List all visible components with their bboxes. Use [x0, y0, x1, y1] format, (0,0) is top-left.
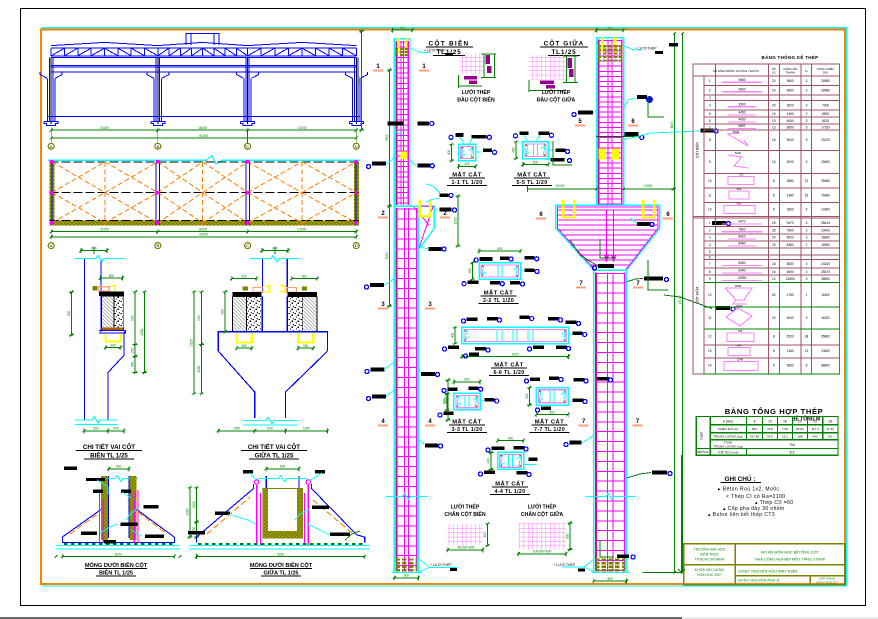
svg-text:7800: 7800	[385, 134, 389, 141]
detail vai cot bien: corbel cap	[99, 292, 124, 297]
svg-text:400: 400	[512, 147, 516, 153]
svg-text:16840: 16840	[821, 236, 830, 240]
svg-text:800: 800	[607, 577, 613, 581]
svg-text:20: 20	[772, 236, 776, 240]
section 4-4 TL 1/20	[498, 452, 524, 469]
elevation: haunch line	[40, 72, 47, 79]
svg-text:88800: 88800	[821, 364, 830, 368]
cot giua funnel	[556, 205, 597, 228]
svg-text:8120: 8120	[822, 119, 829, 123]
svg-text:10800: 10800	[357, 76, 361, 85]
svg-text:LƯỚI THÉP: LƯỚI THÉP	[528, 503, 557, 511]
svg-text:1500: 1500	[453, 217, 457, 224]
svg-text:3: 3	[806, 138, 808, 142]
svg-text:MSSV:X041357: MSSV:X041357	[816, 580, 838, 584]
svg-text:84.82: 84.82	[796, 427, 804, 431]
svg-text:18: 18	[772, 262, 776, 266]
svg-text:2520: 2520	[787, 335, 794, 339]
svg-text:▸ Bêton Roù 1x2, Mo0c: ▸ Bêton Roù 1x2, Mo0c	[718, 487, 779, 493]
cot giua base line	[592, 572, 630, 574]
svg-text:9470: 9470	[787, 221, 794, 225]
mong cot bien: shaft	[108, 476, 110, 538]
svg-text:14300: 14300	[821, 208, 830, 212]
svg-text:23.6: 23.6	[767, 435, 773, 439]
svg-text:900: 900	[67, 311, 71, 317]
svg-text:3: 3	[806, 119, 808, 123]
svg-text:3: 3	[806, 89, 808, 93]
section 1-1 TL 1/20	[459, 144, 476, 161]
svg-text:CHI TIẾT VAI CỘT: CHI TIẾT VAI CỘT	[83, 443, 135, 451]
svg-text:600: 600	[566, 533, 570, 539]
cot giua funnel arrows	[606, 210, 608, 262]
svg-text:1480: 1480	[787, 194, 794, 198]
svg-text:400: 400	[464, 162, 470, 166]
svg-text:95800: 95800	[821, 335, 830, 339]
mong cot bien: rebar verticals	[99, 490, 101, 543]
svg-text:TP.HCM CHI MINH: TP.HCM CHI MINH	[695, 558, 725, 562]
svg-text:CỘT GIỮA: CỘT GIỮA	[544, 39, 585, 48]
svg-text:9660: 9660	[787, 79, 794, 83]
svg-text:800: 800	[280, 465, 286, 469]
svg-text:804: 804	[752, 427, 757, 431]
callouts left column corbel	[426, 199, 439, 203]
luoi thep dau cot giua: mesh	[529, 55, 566, 79]
svg-text:20: 20	[772, 104, 776, 108]
svg-text:400: 400	[447, 150, 451, 156]
svg-text:4060: 4060	[738, 118, 745, 122]
svg-text:800: 800	[497, 247, 503, 251]
svg-text:3000: 3000	[385, 252, 389, 259]
svg-text:9660: 9660	[738, 87, 745, 91]
mong cot giua: rebar verticals	[256, 485, 258, 545]
svg-text:52: 52	[805, 194, 809, 198]
svg-text:4060: 4060	[787, 119, 794, 123]
detail vai cot giua: right corbel block	[288, 292, 317, 297]
detail vai cot bien: corbel hatch block	[102, 296, 115, 330]
svg-text:29: 29	[772, 243, 776, 247]
svg-text:1000: 1000	[197, 365, 201, 372]
svg-text:3: 3	[806, 316, 808, 320]
svg-text:700: 700	[738, 329, 743, 333]
svg-text:9: 9	[709, 277, 711, 281]
svg-text:60000: 60000	[199, 134, 208, 138]
svg-text:8: 8	[773, 208, 775, 212]
elevation: skylight monitor box	[186, 34, 219, 46]
svg-text:71.30: 71.30	[826, 427, 834, 431]
detail vai cot giua: anchor glyphs right corbel	[280, 286, 285, 292]
svg-text:THANH: THANH	[785, 71, 795, 75]
svg-text:9660: 9660	[787, 89, 794, 93]
svg-text:MÓNG DƯỚI BIÊN CỘT: MÓNG DƯỚI BIÊN CỘT	[85, 561, 148, 569]
svg-text:11: 11	[708, 316, 712, 320]
svg-text:10: 10	[768, 420, 772, 424]
svg-text:400: 400	[443, 399, 447, 405]
svg-text:28410: 28410	[821, 221, 830, 225]
svg-text:600: 600	[109, 274, 115, 278]
detail vai cot giua: funnel taper	[218, 351, 254, 418]
svg-text:2780: 2780	[787, 293, 794, 297]
svg-text:C: C	[246, 144, 249, 149]
svg-text:7: 7	[709, 125, 711, 129]
mong cot giua: pocket hatch U	[263, 489, 268, 539]
elevation: grid bubbles A-D	[50, 130, 52, 143]
detail vai cot giua: top dims	[232, 278, 257, 280]
svg-text:10: 10	[708, 293, 712, 297]
elevation: right height dim	[361, 31, 363, 130]
detail vai cot giua: bottom break	[243, 418, 297, 424]
svg-text:20: 20	[772, 79, 776, 83]
detail vai cot giua: left corbel block	[233, 292, 262, 297]
svg-text:600: 600	[404, 574, 410, 578]
svg-text:2860: 2860	[787, 208, 794, 212]
svg-text:4450: 4450	[787, 112, 794, 116]
luoi thep dau cot bien: end blocks	[485, 55, 490, 64]
cot bien bottom dim	[394, 577, 418, 579]
svg-text:A: A	[50, 243, 53, 248]
svg-text:8420: 8420	[787, 236, 794, 240]
svg-text:1: 1	[709, 221, 711, 225]
mong cot giua: bottom dim	[197, 556, 365, 558]
svg-text:950: 950	[737, 202, 742, 206]
svg-text:TL1/25: TL1/25	[436, 49, 461, 56]
detail vai cot giua: left dims	[193, 292, 195, 394]
elevation: crane girder lines	[51, 64, 356, 66]
svg-text:360: 360	[110, 343, 116, 347]
svg-text:540: 540	[737, 344, 742, 348]
cot bien break mark	[386, 494, 427, 500]
svg-text:2000: 2000	[140, 328, 144, 335]
svg-text:B: B	[156, 243, 159, 248]
svg-text:24240: 24240	[821, 262, 830, 266]
luoi thep chan cot giua mesh	[518, 523, 566, 550]
svg-text:39480: 39480	[821, 179, 830, 183]
mong cot bien: anchor hatch strips	[101, 476, 108, 540]
svg-text:600: 600	[464, 378, 470, 382]
svg-text:+ LƯỚI THÉP: + LƯỚI THÉP	[635, 46, 657, 51]
svg-text:3: 3	[806, 277, 808, 281]
svg-text:CHI TIẾT VAI CỘT: CHI TIẾT VAI CỘT	[248, 443, 300, 451]
svg-text:12: 12	[708, 335, 712, 339]
svg-text:7: 7	[709, 262, 711, 266]
svg-text:17160: 17160	[821, 125, 830, 129]
svg-text:60000: 60000	[199, 233, 208, 237]
svg-text:50x50=400: 50x50=400	[458, 546, 475, 550]
svg-text:3: 3	[806, 270, 808, 274]
svg-text:9470: 9470	[738, 220, 745, 224]
svg-text:8: 8	[709, 270, 711, 274]
cot bien top olive band	[395, 48, 410, 50]
plan: column lines B C	[155, 162, 157, 226]
cot bien base leader fan	[419, 559, 429, 572]
svg-text:8490: 8490	[738, 269, 745, 273]
cot giua bottom dim	[594, 580, 627, 582]
svg-text:117.4: 117.4	[811, 427, 819, 431]
svg-text:600: 600	[508, 437, 514, 441]
svg-text:250: 250	[131, 348, 135, 354]
mong cot giua: base layers	[190, 544, 370, 546]
svg-text:ĐỒ ÁN MÔN HỌC BÊTÔNG CỐT: ĐỒ ÁN MÔN HỌC BÊTÔNG CỐT	[761, 550, 819, 555]
svg-text:400: 400	[483, 532, 487, 538]
section 3-3 callouts	[448, 387, 458, 391]
svg-text:KIẾN TRÚC: KIẾN TRÚC	[700, 552, 719, 557]
svg-text:8: 8	[773, 349, 775, 353]
svg-text:11000: 11000	[644, 184, 653, 188]
svg-text:6: 6	[709, 119, 711, 123]
green dim near title block	[681, 455, 683, 573]
mong cot giua: leaders	[250, 473, 256, 480]
cot giua upper shaft rebar	[596, 38, 623, 206]
mong cot bien: base layers	[56, 544, 180, 546]
svg-text:5: 5	[709, 250, 711, 254]
svg-text:2: 2	[709, 229, 711, 233]
svg-text:3: 3	[806, 160, 808, 164]
svg-text:16960: 16960	[821, 243, 830, 247]
section 5-5 callouts	[520, 132, 529, 136]
svg-text:794: 794	[789, 443, 795, 447]
cot giua span dims 10000 11000	[528, 188, 597, 190]
svg-text:24840: 24840	[821, 349, 830, 353]
svg-text:15600: 15600	[821, 160, 830, 164]
svg-text:GVHD: NGUYỄN HỮU ANH TUẤN: GVHD: NGUYỄN HỮU ANH TUẤN	[738, 569, 798, 574]
section 6-6 TL 1/20	[462, 327, 569, 343]
svg-text:13: 13	[805, 349, 809, 353]
luoi thep dau cot giua: end blocks	[567, 58, 571, 68]
svg-text:400: 400	[525, 393, 529, 399]
luoi thep chan cot bien mesh	[448, 524, 483, 546]
cot bien top hooks	[397, 38, 400, 52]
cot giua top-right label	[624, 46, 641, 50]
svg-text:12850: 12850	[738, 276, 747, 280]
svg-text:TL: TL	[805, 69, 809, 73]
svg-text:8480: 8480	[787, 243, 794, 247]
svg-text:8490: 8490	[787, 270, 794, 274]
svg-text:NHÀ CÔNG NGHIỆP MỘT TẦNG 3 NHỊ: NHÀ CÔNG NGHIỆP MỘT TẦNG 3 NHỊP	[755, 557, 826, 562]
svg-text:6600: 6600	[738, 124, 745, 128]
svg-text:3: 3	[709, 236, 711, 240]
svg-text:28: 28	[772, 221, 776, 225]
svg-text:A: A	[50, 144, 53, 149]
svg-text:SỐ HÌNH DÁNG VA KÍCH THƯỚC: SỐ HÌNH DÁNG VA KÍCH THƯỚC	[713, 68, 760, 73]
svg-text:6: 6	[709, 256, 711, 260]
svg-text:ø (mm): ø (mm)	[723, 420, 733, 424]
plan: boundary dashes	[50, 161, 359, 163]
svg-text:TRỌNG LƯỢNG (kg): TRỌNG LƯỢNG (kg)	[714, 444, 743, 448]
cot giua lower shaft rebar	[594, 270, 627, 572]
svg-text:8480: 8480	[738, 241, 745, 245]
svg-text:3: 3	[806, 262, 808, 266]
svg-text:11: 11	[708, 194, 712, 198]
detail vai cot giua: bottom dim	[218, 430, 254, 432]
svg-text:2600: 2600	[735, 284, 742, 288]
section 2-2 TL 1/20	[479, 263, 521, 279]
svg-text:CHÂN CỘT GIỮA: CHÂN CỘT GIỮA	[521, 510, 564, 518]
svg-text:28980: 28980	[821, 79, 830, 83]
svg-text:400: 400	[113, 427, 119, 431]
svg-text:400: 400	[131, 362, 135, 368]
svg-text:1180: 1180	[787, 349, 794, 353]
svg-text:19: 19	[772, 112, 776, 116]
svg-text:76.8: 76.8	[767, 427, 773, 431]
svg-text:1400: 1400	[186, 508, 190, 515]
svg-text:1: 1	[709, 79, 711, 83]
svg-text:900: 900	[221, 309, 225, 315]
svg-text:5: 5	[709, 112, 711, 116]
mong cot bien: diag rebar dashes	[70, 512, 100, 534]
svg-text:20: 20	[798, 420, 802, 424]
svg-text:8: 8	[754, 420, 756, 424]
plan: edge hatched strips	[50, 162, 55, 226]
cot giua tie yellow blocks	[599, 149, 607, 160]
svg-text:BẢNG THỐNG KÊ THÉP: BẢNG THỐNG KÊ THÉP	[762, 53, 819, 60]
cot giua top dim	[596, 29, 623, 31]
svg-text:600: 600	[242, 274, 248, 278]
svg-text:360: 360	[242, 344, 248, 348]
svg-text:60: 60	[772, 293, 776, 297]
svg-text:3500: 3500	[787, 104, 794, 108]
cot giua corbel yellow Us	[563, 200, 574, 218]
section 7-7 TL 1/20	[536, 388, 568, 405]
svg-text:8: 8	[773, 194, 775, 198]
svg-text:ĐẦU CỘT BIÊN: ĐẦU CỘT BIÊN	[457, 96, 495, 104]
svg-text:15.1: 15.1	[782, 435, 788, 439]
mong cot giua: footing outline	[197, 490, 253, 537]
svg-text:GIỮA TL 1/25: GIỮA TL 1/25	[255, 453, 294, 460]
svg-text:▴ Bulon liên kết thép CT3: ▴ Bulon liên kết thép CT3	[708, 512, 775, 518]
svg-text:CỘT BIÊN: CỘT BIÊN	[695, 141, 700, 158]
svg-text:21000: 21000	[298, 228, 307, 232]
svg-text:SVTH: NGUYỄN PHÚ Đ: SVTH: NGUYỄN PHÚ Đ	[738, 578, 780, 583]
svg-text:4450: 4450	[738, 111, 745, 115]
plan: orange roof bracing	[52, 162, 356, 226]
callouts left column upper	[388, 122, 404, 126]
svg-text:8080: 8080	[738, 261, 745, 265]
detail vai cot bien: column taper	[108, 332, 124, 420]
svg-text:MẶT CẮT: MẶT CẮT	[494, 361, 524, 369]
svg-text:8.3: 8.3	[790, 450, 795, 454]
svg-text:8: 8	[709, 138, 711, 142]
svg-text:600: 600	[116, 465, 122, 469]
svg-text:16320: 16320	[821, 316, 830, 320]
svg-text:13: 13	[708, 349, 712, 353]
svg-text:BIÊN TL 1/25: BIÊN TL 1/25	[99, 569, 133, 577]
svg-text:100x60=600: 100x60=600	[533, 550, 552, 554]
svg-text:76960: 76960	[821, 194, 830, 198]
svg-text:HOA HỌC 2007: HOA HỌC 2007	[697, 573, 722, 577]
section 2-2 callouts	[479, 257, 492, 261]
detail vai cot bien: bottom break	[75, 417, 117, 423]
svg-text:4800: 4800	[670, 121, 674, 129]
svg-text:1000: 1000	[303, 427, 310, 431]
svg-text:21: 21	[805, 179, 809, 183]
svg-text:9: 9	[709, 160, 711, 164]
svg-text:500: 500	[737, 187, 742, 191]
left column side dims	[389, 70, 391, 206]
svg-text:5040: 5040	[733, 130, 740, 134]
svg-text:35: 35	[772, 229, 776, 233]
svg-text:MẶT CẮT: MẶT CẮT	[535, 418, 565, 426]
svg-text:20: 20	[772, 316, 776, 320]
svg-text:3: 3	[806, 112, 808, 116]
svg-text:28: 28	[828, 420, 832, 424]
detail vai cot giua: column shaft	[262, 259, 264, 292]
cot bien bottom olive bands	[396, 558, 418, 560]
section 5-5 TL 1/20	[523, 142, 548, 159]
svg-text:600: 600	[302, 274, 308, 278]
svg-text:CHIỀU DÀI (m): CHIỀU DÀI (m)	[718, 426, 739, 431]
mong cot bien: callout labels	[64, 467, 77, 471]
mong cot giua: diag rebar dashes	[207, 497, 250, 534]
detail vai cot bien: anchor glyphs	[93, 286, 98, 290]
svg-text:MẶT CẮT: MẶT CẮT	[484, 289, 514, 297]
cot giua base leader fan	[584, 559, 594, 572]
detail vai cot giua: yellow U seats	[237, 333, 252, 343]
svg-text:THÉP: THÉP	[699, 432, 704, 441]
svg-text:12850: 12850	[786, 277, 795, 281]
svg-text:1000: 1000	[233, 427, 240, 431]
svg-text:1: 1	[806, 293, 808, 297]
cot bien tie yellow block	[401, 152, 408, 160]
svg-text:7800: 7800	[787, 229, 794, 233]
svg-text:23400: 23400	[821, 229, 830, 233]
svg-text:8: 8	[773, 335, 775, 339]
svg-text:8: 8	[773, 179, 775, 183]
long right dims	[674, 34, 676, 573]
section 1-1 callouts	[455, 133, 463, 137]
svg-text:TRỌNG LƯỢNG (kg): TRỌNG LƯỢNG (kg)	[714, 435, 743, 439]
cot giua bottom olive bands	[595, 558, 626, 560]
svg-text:25470: 25470	[821, 270, 830, 274]
svg-text:3000: 3000	[115, 552, 122, 556]
callouts left column mid	[370, 283, 384, 287]
detail vai cot bien: left small dim	[71, 292, 73, 335]
svg-text:5200: 5200	[277, 552, 284, 556]
svg-text:3500: 3500	[738, 102, 745, 106]
cyan accent frame	[41, 27, 847, 29]
svg-text:CHÂN CỘT BIÊN: CHÂN CỘT BIÊN	[444, 510, 485, 518]
detail vai cot giua: top break	[250, 256, 300, 262]
svg-text:3: 3	[806, 229, 808, 233]
svg-text:BIÊN TL 1/25: BIÊN TL 1/25	[90, 452, 128, 460]
detail vai cot bien: top break	[75, 256, 125, 262]
mong cot bien: footing outline	[62, 509, 102, 537]
svg-text:900: 900	[197, 315, 201, 321]
svg-text:8420: 8420	[738, 234, 745, 238]
svg-text:ĐẦU CỘT GIỮA: ĐẦU CỘT GIỮA	[537, 96, 576, 104]
svg-text:LƯỚI THÉP: LƯỚI THÉP	[462, 88, 491, 96]
detail vai cot bien: bottom dim	[84, 430, 108, 432]
svg-text:TRƯỜNG ĐẠI HỌC: TRƯỜNG ĐẠI HỌC	[694, 547, 726, 552]
svg-text:6: 6	[806, 125, 808, 129]
bang tong hop thep: grid	[696, 417, 838, 456]
detail vai cot giua: anchor glyphs left corbel	[243, 286, 248, 290]
svg-text:188: 188	[797, 435, 802, 439]
svg-text:600: 600	[93, 427, 99, 431]
svg-text:12: 12	[772, 277, 776, 281]
svg-text:16: 16	[772, 270, 776, 274]
svg-text:2: 2	[806, 243, 808, 247]
cot bien upper shaft rebar	[394, 39, 410, 206]
mong cot bien: leader lines	[97, 480, 108, 494]
svg-text:1880: 1880	[787, 179, 794, 183]
svg-text:18: 18	[783, 420, 787, 424]
cot giua top olive bands	[598, 45, 623, 47]
svg-text:KHOA XÂY DỰNG: KHOA XÂY DỰNG	[695, 568, 725, 572]
svg-text:400: 400	[607, 26, 613, 30]
elevation: columns	[47, 78, 49, 121]
svg-text:900: 900	[131, 315, 135, 321]
svg-text:5440: 5440	[787, 316, 794, 320]
svg-text:400: 400	[400, 26, 406, 30]
